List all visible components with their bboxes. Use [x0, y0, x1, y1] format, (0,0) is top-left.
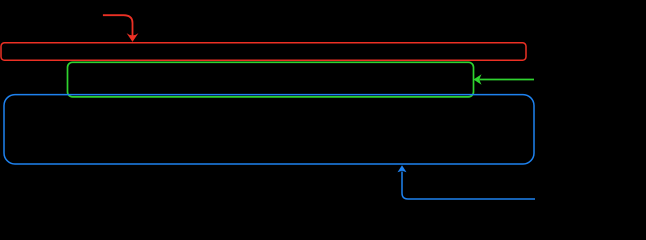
red highlight box [1, 43, 526, 61]
blue arrow [398, 165, 536, 199]
green arrow [474, 74, 535, 84]
green highlight box [68, 62, 474, 97]
blue highlight box [4, 95, 534, 164]
red arrow [103, 15, 138, 42]
